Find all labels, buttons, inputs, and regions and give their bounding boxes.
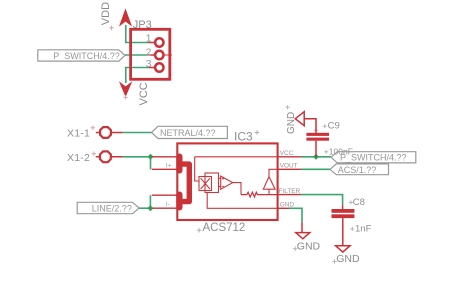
ground symbol (right-pointing, near C9) <box>285 105 304 134</box>
svg-text:VOUT: VOUT <box>280 163 298 170</box>
svg-text:LINE/2.??: LINE/2.?? <box>92 204 132 214</box>
svg-text:GND: GND <box>336 253 360 265</box>
inner GND rail <box>207 193 277 209</box>
ground symbol (IC GND pin) <box>293 233 321 253</box>
wire C9 to GND <box>304 119 316 133</box>
junction at X1-2 <box>148 154 154 160</box>
pin 2 dash <box>164 54 172 56</box>
svg-text:NETRAL/4.??: NETRAL/4.?? <box>160 128 216 138</box>
pin VCC <box>277 156 301 158</box>
wire C9 to VCC <box>315 141 317 157</box>
svg-text:X1-2: X1-2 <box>67 152 90 164</box>
svg-text:P_SWITCH/4.??: P_SWITCH/4.?? <box>53 51 120 61</box>
svg-text:I-: I- <box>166 201 170 208</box>
wire into C8 <box>342 205 344 209</box>
svg-text:1: 1 <box>146 32 152 44</box>
pin I+ 1 <box>152 156 178 158</box>
thick bar I- <box>176 195 182 208</box>
net label P_SWITCH/4.?? (left) <box>38 50 125 61</box>
power VDD symbol <box>100 2 131 30</box>
IC3 body <box>177 143 277 220</box>
wire pin 3 to VCC <box>126 68 149 84</box>
svg-text:1nF: 1nF <box>355 224 372 235</box>
hall square B <box>205 173 219 193</box>
pin stub 2 <box>149 54 156 56</box>
junction at LINE <box>147 205 153 211</box>
wire VDD to JP3 pin 1 <box>126 25 149 43</box>
svg-text:FILTER: FILTER <box>279 188 301 195</box>
pin GND <box>277 207 289 209</box>
thick current path <box>180 164 189 202</box>
ground symbol (below C8) <box>332 246 360 265</box>
JP3 body <box>131 29 170 79</box>
pin I+ 2 <box>152 168 178 170</box>
svg-text:X1-1: X1-1 <box>67 128 90 140</box>
wire X1-1 to NETRAL <box>123 132 152 134</box>
net label P_SWITCH/4.?? (right) <box>331 152 416 163</box>
op-amp triangle <box>221 176 233 189</box>
pin FILTER <box>277 194 301 196</box>
connector pin X1-1 <box>67 126 123 140</box>
connector JP3 <box>131 19 172 80</box>
pin VOUT <box>277 168 301 170</box>
hall bias drop <box>195 157 199 181</box>
wire I+ vertical <box>150 157 152 170</box>
svg-text:GND: GND <box>297 240 321 252</box>
inner VCC rail <box>195 156 278 158</box>
octagon pad X1-2 <box>100 151 111 162</box>
net label LINE/2.?? <box>77 202 139 213</box>
pad circle 2 <box>155 51 163 59</box>
svg-text:VCC: VCC <box>138 82 150 105</box>
svg-text:P_SWITCH/4.??: P_SWITCH/4.?? <box>340 153 407 163</box>
net label ACS/1.?? <box>330 164 389 175</box>
pad circle 1 <box>155 38 163 46</box>
pin stub 3 <box>149 67 156 69</box>
hall element X box <box>199 177 212 191</box>
connector pin X1-2 <box>67 151 123 164</box>
svg-text:VCC: VCC <box>280 150 294 157</box>
wire FILTER to C8 <box>301 195 343 206</box>
wire X1-2 to I+ <box>123 156 151 158</box>
power VCC symbol <box>120 82 150 105</box>
amp input lines <box>219 178 221 186</box>
svg-text:C8: C8 <box>353 197 365 208</box>
pad circle 3 <box>155 63 163 71</box>
svg-text:GND: GND <box>286 112 297 134</box>
net label NETRAL/4.?? <box>152 126 228 138</box>
svg-text:3: 3 <box>146 58 152 70</box>
gnd stub <box>301 223 303 233</box>
wire LINE to I- <box>139 207 150 209</box>
wire C8 to GND <box>342 218 344 246</box>
filter resistor <box>241 192 277 197</box>
buffer base line <box>268 189 270 194</box>
pin stub 1 <box>149 42 156 44</box>
wire pin 2 from P_SWITCH flag <box>125 54 149 56</box>
capacitor C9 <box>306 120 353 156</box>
pin I- 2 <box>152 207 178 209</box>
svg-text:VDD: VDD <box>100 2 112 25</box>
wire VCC net <box>301 156 331 158</box>
thick bar I+ <box>176 157 182 171</box>
buffer triangle <box>263 177 275 190</box>
octagon pad X1-1 <box>100 127 111 138</box>
wire VOUT net <box>301 168 330 170</box>
pin I- 1 <box>152 194 178 196</box>
svg-text:ACS712: ACS712 <box>203 222 246 234</box>
capacitor C8 <box>332 197 372 235</box>
wire I- vertical <box>149 195 151 208</box>
svg-text:ACS/1.??: ACS/1.?? <box>338 165 377 175</box>
junction VCC/C9 <box>313 154 319 160</box>
amp output path <box>233 183 241 195</box>
svg-text:2: 2 <box>146 46 152 58</box>
pin line X1-1 <box>96 132 123 134</box>
op-amp / IC3 ACS712 <box>152 129 301 234</box>
svg-text:I+: I+ <box>166 162 172 169</box>
wire GND pin net <box>289 208 302 222</box>
buffer apex line <box>269 169 277 176</box>
svg-text:C9: C9 <box>328 120 340 131</box>
svg-text:IC3: IC3 <box>234 129 253 143</box>
pin line X1-2 <box>96 156 123 158</box>
